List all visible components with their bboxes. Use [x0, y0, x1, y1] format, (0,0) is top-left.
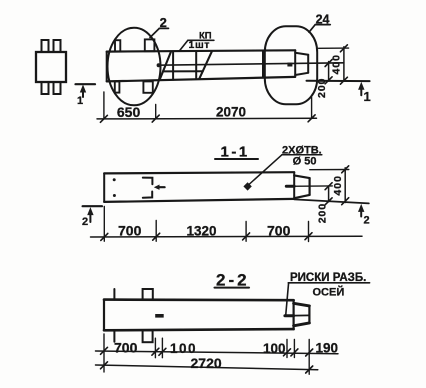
centerline dot [157, 63, 161, 67]
dim 400 line top view [343, 47, 345, 81]
tick 1320-700 [243, 233, 250, 240]
dim 2-2 extension x294 [293, 340, 295, 358]
tick 650 right [152, 115, 159, 122]
label 24 leader [309, 25, 315, 33]
dot upper 1-1 [113, 178, 116, 181]
socket 2-2 right edge [308, 306, 310, 323]
tick row1 x104 [101, 347, 108, 354]
tick 200 bottom [325, 77, 332, 84]
section marker 1 left arrow [80, 85, 86, 98]
section marker 2 left line [83, 205, 102, 207]
tick 400 top [340, 45, 347, 52]
bottom extension and section marker 1 right line [307, 80, 370, 82]
tick 700 right [305, 233, 312, 240]
dim 400 top extension [319, 47, 349, 49]
dim line 700 1320 700 [91, 235, 363, 238]
beam 2-2 right edge [293, 300, 295, 329]
socket 2-2 bottom slant [294, 323, 310, 326]
svg-text:1-1: 1-1 [221, 143, 250, 160]
cross-section top stub left [42, 40, 49, 52]
svg-text:200: 200 [316, 77, 328, 98]
dim 650 left extension [103, 92, 105, 118]
svg-text:400: 400 [332, 175, 344, 196]
beam 1-1 bottom edge [104, 199, 294, 202]
end socket top view right edge [307, 55, 309, 73]
svg-text:2: 2 [160, 15, 167, 30]
callout stadium 24 [265, 26, 317, 104]
section 1-1 title underline [215, 158, 258, 160]
dim 200 line 1-1 [328, 186, 330, 202]
beam 1-1 top edge [104, 172, 294, 173]
end socket top view bottom slant [295, 73, 308, 75]
beam top view left edge [106, 52, 108, 82]
dim 2-2 extension x287 [286, 340, 288, 358]
mesh label fraction bar [188, 39, 214, 41]
svg-text:400: 400 [330, 54, 342, 75]
tick 200 top [325, 60, 332, 67]
break mesh right edge [199, 52, 212, 79]
svg-text:2070: 2070 [216, 104, 246, 119]
svg-text:100: 100 [170, 341, 197, 356]
section marker 1 right arrow [358, 82, 364, 96]
top tick 2-2 [113, 289, 115, 300]
riska mark top view [287, 63, 292, 67]
centerline top view [158, 63, 343, 65]
label 24 underline [315, 24, 330, 26]
hole label underline [282, 154, 322, 156]
hole mark diamond 1-1 [243, 182, 251, 190]
tab bottom-right [143, 81, 152, 92]
dim 650 middle extension [155, 105, 157, 118]
svg-text:РИСКИ РАЗБ.: РИСКИ РАЗБ. [290, 272, 366, 284]
top tab 2-2 [143, 289, 153, 300]
dim 2-2 extension x104 [103, 334, 105, 372]
tick 700 left [101, 233, 108, 240]
tick row1 x309 [306, 349, 313, 356]
svg-text:200: 200 [316, 203, 328, 224]
tick 400 top 1-1 [342, 166, 349, 173]
beam 2-2 top edge [104, 298, 294, 301]
socket 1-1 top slant [294, 175, 309, 178]
loop bracket bottom 1-1 [143, 192, 152, 198]
tick row2 x104 [101, 362, 108, 369]
dim 1-1 extension x246 [245, 222, 247, 242]
break mesh left edge [160, 52, 171, 80]
socket 2-2 top slant [294, 303, 310, 306]
svg-text:24: 24 [316, 13, 330, 27]
svg-text:100: 100 [263, 341, 286, 356]
tick 400 bottom 1-1 [342, 198, 349, 205]
dim 2070 right extension [311, 97, 313, 118]
bracket arrow 1-1 [154, 185, 165, 190]
dot lower 1-1 [113, 194, 116, 197]
tick row1 x156 [152, 348, 159, 355]
svg-text:2720: 2720 [191, 355, 222, 371]
riski label leader [286, 283, 289, 316]
svg-text:700: 700 [267, 223, 291, 239]
tick row1 x287 [284, 349, 291, 356]
tick 200 top 1-1 [325, 183, 332, 190]
svg-text:ОСЕЙ: ОСЕЙ [313, 286, 345, 299]
beam end block divider [262, 51, 264, 78]
dim 2-2 extension x156 [154, 338, 156, 358]
bottom tab 2-2 [143, 330, 153, 342]
dim line 650 2070 [97, 117, 317, 120]
svg-text:2: 2 [82, 216, 88, 228]
dim 1-1 extension x156 [155, 220, 157, 241]
tick 200 bottom 1-1 [325, 198, 332, 205]
section marker 1 left line [76, 83, 96, 85]
tick 700-1320 [153, 233, 160, 240]
beam top view top edge [107, 50, 296, 51]
svg-text:700: 700 [118, 223, 142, 239]
tick row1 x162 [159, 348, 166, 355]
section marker 2 left arrow [87, 207, 93, 222]
tab top-left [115, 40, 120, 51]
loop bracket top 1-1 [143, 178, 153, 185]
dim 200 line top view [328, 62, 330, 82]
callout ellipse 2 [108, 28, 161, 106]
svg-text:1320: 1320 [187, 224, 217, 239]
svg-text:1: 1 [77, 95, 83, 107]
svg-text:650: 650 [117, 104, 141, 120]
socket 1-1 right edge [309, 178, 311, 195]
inner mark 2-2 [155, 314, 164, 318]
break mesh vertical 1 [172, 52, 174, 80]
hole label leader [250, 155, 282, 184]
dim line 2-2 row2 [96, 365, 318, 370]
beam 2-2 left edge [103, 300, 105, 331]
end socket top view top slant [295, 53, 308, 55]
beam top view bottom edge [107, 77, 296, 82]
tick 2070 right [308, 115, 315, 122]
beam 1-1 right edge [293, 172, 295, 199]
riski label underline [288, 282, 369, 284]
svg-text:1шт: 1шт [189, 39, 211, 51]
break mesh horizontal [163, 70, 203, 72]
cross-section bottom stub right [54, 82, 61, 94]
mesh label leader [179, 40, 188, 51]
riska mark 2-2 [285, 314, 294, 317]
section marker 2 right arrow [358, 204, 364, 217]
svg-text:Ø 50: Ø 50 [293, 155, 317, 167]
2-2 title underline [215, 287, 250, 289]
svg-text:1: 1 [364, 89, 371, 104]
label 2 leader [150, 28, 159, 37]
bottom tick 2-2 [113, 330, 115, 342]
svg-text:2: 2 [364, 215, 370, 227]
socket 2-2 middle line [294, 314, 310, 316]
svg-text:700: 700 [114, 340, 138, 356]
break mesh vertical 2 [195, 52, 197, 79]
cross-section square [36, 52, 66, 82]
dim 400 line 1-1 [344, 168, 346, 203]
riska mark 1-1 [286, 185, 294, 188]
tick row1 x294 [291, 349, 298, 356]
tick 400 bottom [340, 77, 347, 84]
dim 2-2 extension x162 [161, 338, 163, 358]
label 2 underline [159, 27, 168, 29]
svg-text:2-2: 2-2 [216, 270, 250, 289]
tab bottom-left [115, 81, 120, 92]
dim 2-2 extension x309 [308, 340, 310, 375]
dim 1-1 extension x104 [103, 207, 105, 242]
cross-section top stub right [54, 40, 61, 52]
dim line 2-2 row1 [96, 351, 339, 354]
beam 1-1 left edge [103, 173, 105, 202]
cross-section bottom stub left [42, 82, 49, 94]
beam 2-2 bottom edge [104, 329, 294, 330]
tick 650 left [100, 115, 107, 122]
svg-text:190: 190 [316, 340, 339, 355]
dim 400 top extension 1-1 [310, 169, 349, 171]
centerline 1-1 [286, 185, 332, 187]
tick row2 x309 [306, 366, 313, 373]
tab top-right [145, 39, 155, 51]
socket 1-1 bottom slant [294, 195, 309, 198]
dim 1-1 extension x308 [308, 222, 310, 242]
bottom extension and section marker 2 right line [294, 199, 369, 203]
beam top view right end edge [294, 50, 296, 77]
